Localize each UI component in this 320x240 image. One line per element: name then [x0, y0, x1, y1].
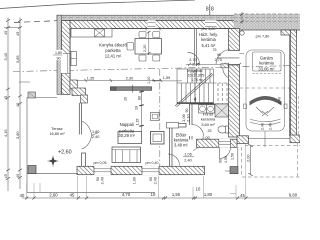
svg-text:16,80 m²: 16,80 m² [49, 131, 65, 136]
svg-text:1,80: 1,80 [55, 51, 62, 55]
svg-text:1,00: 1,00 [133, 177, 137, 184]
svg-text:kerámia: kerámia [201, 37, 216, 42]
svg-text:80: 80 [137, 96, 141, 100]
svg-text:2,00: 2,00 [245, 154, 250, 162]
svg-text:2,10: 2,10 [186, 113, 191, 122]
svg-text:2,30: 2,30 [126, 77, 133, 81]
svg-text:2,40: 2,40 [92, 135, 99, 139]
svg-text:lépcsőház: lépcsőház [187, 69, 203, 73]
svg-text:2,76: 2,76 [192, 62, 199, 66]
svg-text:parketta: parketta [105, 48, 121, 53]
svg-text:6,60: 6,60 [289, 193, 298, 198]
svg-text:25: 25 [208, 129, 212, 133]
svg-text:1,50: 1,50 [172, 192, 181, 197]
svg-text:1,50: 1,50 [224, 156, 228, 163]
svg-text:2,70: 2,70 [215, 58, 222, 62]
svg-text:1,15: 1,15 [135, 119, 139, 126]
svg-text:kerámia: kerámia [201, 117, 216, 122]
svg-text:90: 90 [96, 177, 100, 181]
svg-text:Konyha étkező: Konyha étkező [99, 43, 127, 48]
svg-text:45: 45 [15, 32, 20, 36]
svg-text:1,50: 1,50 [231, 153, 235, 160]
svg-text:10: 10 [134, 106, 138, 110]
svg-text:1,35: 1,35 [87, 77, 94, 81]
svg-text:2,20: 2,20 [143, 45, 147, 52]
svg-text:45: 45 [3, 174, 8, 178]
svg-text:1,59: 1,59 [163, 76, 170, 80]
svg-text:45: 45 [3, 31, 8, 35]
svg-text:kerámia: kerámia [259, 61, 274, 66]
svg-text:45: 45 [240, 193, 245, 198]
svg-text:15x17,3/29: 15x17,3/29 [188, 73, 205, 77]
svg-text:3,40: 3,40 [3, 52, 8, 60]
svg-text:3,80: 3,80 [15, 131, 20, 139]
svg-text:2,40: 2,40 [278, 97, 282, 104]
svg-text:90: 90 [219, 159, 223, 163]
svg-text:40: 40 [20, 193, 25, 198]
svg-text:1,80: 1,80 [204, 192, 213, 197]
svg-text:75: 75 [213, 48, 217, 52]
svg-text:3,85: 3,85 [15, 55, 20, 63]
svg-text:4,70: 4,70 [122, 192, 131, 197]
svg-text:2,40: 2,40 [261, 123, 265, 130]
svg-text:pm 7,80: pm 7,80 [201, 26, 216, 31]
svg-text:4,15: 4,15 [3, 129, 8, 137]
svg-text:1,80: 1,80 [92, 130, 99, 134]
svg-text:pm 0,40: pm 0,40 [146, 161, 159, 165]
svg-text:30,29 m²: 30,29 m² [118, 133, 135, 138]
svg-text:10: 10 [196, 187, 201, 192]
svg-text:45: 45 [70, 193, 75, 198]
svg-text:8: 8 [211, 6, 214, 12]
svg-text:2,60: 2,60 [49, 193, 58, 198]
svg-text:20: 20 [124, 97, 128, 101]
svg-text:pm 7,80: pm 7,80 [256, 35, 270, 39]
svg-text:+2,60: +2,60 [58, 150, 72, 156]
svg-text:90: 90 [185, 109, 189, 113]
svg-text:2,49: 2,49 [269, 123, 273, 130]
svg-text:2,40: 2,40 [154, 177, 158, 184]
svg-text:10: 10 [151, 192, 156, 197]
svg-text:pm 0,05: pm 0,05 [94, 161, 107, 165]
svg-text:1,06: 1,06 [184, 153, 191, 157]
svg-text:90: 90 [149, 177, 153, 181]
svg-text:8: 8 [206, 6, 209, 12]
svg-text:90: 90 [57, 57, 61, 61]
svg-text:90: 90 [217, 53, 221, 57]
svg-text:45: 45 [3, 96, 8, 100]
svg-text:2,40: 2,40 [184, 158, 191, 162]
svg-text:1,10: 1,10 [147, 77, 151, 84]
svg-text:Nappali: Nappali [120, 122, 134, 127]
svg-text:1,74 m²: 1,74 m² [191, 78, 203, 82]
svg-text:3,60 m²: 3,60 m² [201, 122, 215, 127]
svg-text:12,41 m²: 12,41 m² [105, 54, 122, 59]
svg-text:2,40: 2,40 [101, 177, 105, 184]
svg-text:3,49 m²: 3,49 m² [174, 143, 189, 148]
